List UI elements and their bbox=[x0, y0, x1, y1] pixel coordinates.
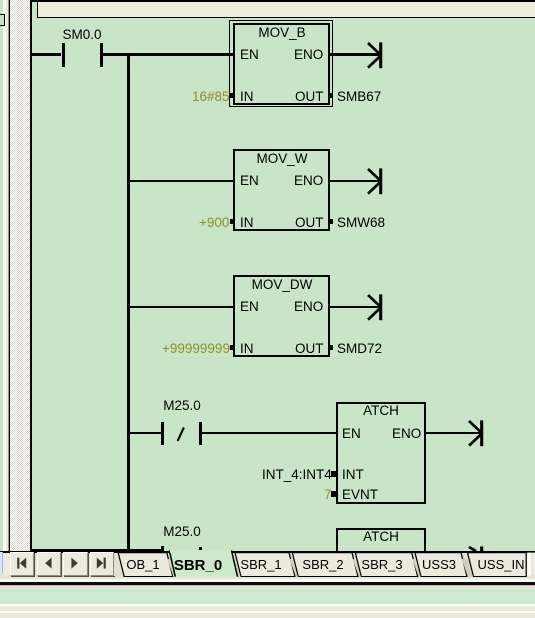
pin ENO (MOV_B) bbox=[294, 48, 323, 62]
operand SMD72 at OUT bbox=[337, 342, 382, 356]
contact M25.0 left bar bbox=[161, 422, 164, 446]
pin OUT (MOV_DW) bbox=[295, 342, 324, 356]
title MOV_B bbox=[258, 26, 305, 40]
IN pin tick bbox=[230, 93, 234, 99]
wire from left rail to contact bbox=[32, 53, 62, 55]
rows under tab strip bbox=[0, 577, 535, 579]
tab nav button last bbox=[90, 552, 115, 576]
EVNT pin tick bbox=[331, 491, 336, 496]
box ATCH 2 (clipped) bbox=[336, 528, 426, 551]
tab label SBR_2 bbox=[302, 558, 343, 572]
operand INT_4:INT4 at INT bbox=[262, 468, 332, 482]
pin INT (ATCH) bbox=[342, 468, 364, 482]
wire contact to ATCH EN bbox=[202, 432, 336, 434]
pin IN (MOV_W) bbox=[240, 216, 254, 230]
operand SMW68 at OUT bbox=[337, 216, 385, 230]
IN pin tick bbox=[230, 345, 234, 351]
inter-tab gap wedges bbox=[167, 559, 175, 577]
contact left bar top bbox=[161, 546, 164, 551]
active tab SBR_0 bbox=[169, 550, 237, 576]
INT pin tick bbox=[331, 471, 336, 476]
continuation arrow rung1 bbox=[365, 40, 387, 71]
tab strip background bbox=[0, 553, 535, 578]
contact M25.0 right bar bbox=[199, 422, 202, 446]
title MOV_W bbox=[256, 152, 307, 166]
pin EN (MOV_W) bbox=[240, 174, 259, 188]
wire rail to contact bbox=[130, 432, 162, 434]
top network title bar bbox=[30, 0, 535, 2]
tab label SBR_0 (active) bbox=[174, 558, 222, 573]
wire ENO to arrow bbox=[330, 53, 380, 55]
box ATCH bbox=[336, 402, 426, 504]
wire contact to MOV_B EN bbox=[103, 53, 233, 55]
branch rail (vertical) bbox=[127, 53, 130, 551]
wire rail to MOV_DW EN bbox=[130, 306, 233, 308]
title MOV_DW bbox=[251, 278, 312, 292]
wire rail to MOV_W EN bbox=[130, 180, 233, 182]
OUT pin tick bbox=[330, 345, 334, 351]
tab label SBR_1 bbox=[241, 558, 282, 572]
box MOV_B bbox=[233, 23, 330, 105]
pin IN (MOV_B) bbox=[240, 90, 254, 104]
pin EN (ATCH) bbox=[342, 427, 361, 441]
box MOV_DW bbox=[233, 275, 330, 357]
title ATCH bbox=[363, 404, 399, 418]
tabs svg bbox=[0, 549, 535, 578]
label M25.0 bbox=[163, 399, 201, 413]
OUT pin tick bbox=[330, 93, 334, 99]
hatched column right border bbox=[30, 0, 32, 553]
rung 5 wire from left rail to contact (clipped by tab strip) bbox=[32, 549, 162, 551]
tab USS3 bbox=[415, 553, 467, 577]
hatched drag column bbox=[10, 0, 30, 551]
box MOV_W bbox=[233, 149, 330, 231]
tab nav button prev bbox=[37, 552, 62, 576]
wire ENO to arrow bbox=[330, 180, 380, 182]
title ATCH (rung 5, clipped) bbox=[363, 530, 399, 544]
strip top border bbox=[0, 551, 535, 553]
continuation arrow rung3 bbox=[365, 292, 387, 323]
IN pin tick bbox=[230, 219, 234, 225]
tab nav button next bbox=[63, 552, 88, 576]
tab label USS3 bbox=[422, 558, 456, 572]
label M25.0 bbox=[163, 525, 201, 539]
pin IN (MOV_DW) bbox=[240, 342, 254, 356]
contact right bar top bbox=[199, 547, 202, 551]
tab nav button first bbox=[10, 552, 35, 576]
tab label USS_IN bbox=[477, 558, 524, 572]
left pane green sliver bbox=[0, 0, 3, 618]
continuation arrow rung5 (clipped) bbox=[466, 544, 488, 551]
splitter bar white/beige bbox=[3, 0, 6, 618]
wire ENO to arrow bbox=[330, 306, 380, 308]
NC slash bbox=[175, 425, 187, 443]
tab label SBR_3 bbox=[362, 558, 403, 572]
contact SM0.0 right bar bbox=[100, 43, 103, 67]
value +99999999 at IN bbox=[162, 342, 230, 356]
continuation arrow rung2 bbox=[365, 166, 387, 197]
pin EN (MOV_DW) bbox=[240, 300, 259, 314]
pin OUT (MOV_W) bbox=[295, 216, 324, 230]
tab SBR_3 bbox=[355, 553, 417, 577]
gap behind tabs left bbox=[114, 553, 117, 576]
scrollbar fragment (left edge, light blue) bbox=[0, 552, 3, 573]
selection frame around MOV_B bbox=[229, 20, 333, 107]
tab label OB_1 bbox=[127, 558, 160, 572]
active tab top join (green) bbox=[170, 550, 230, 553]
value 7 at EVNT bbox=[324, 488, 332, 502]
pin ENO (ATCH) bbox=[392, 427, 421, 441]
value +900 at IN bbox=[199, 216, 229, 230]
pin EVNT (ATCH) bbox=[342, 488, 378, 502]
operand SMB67 at OUT bbox=[337, 90, 381, 104]
hatched drag column left border bbox=[9, 0, 11, 552]
OUT pin tick bbox=[330, 219, 334, 225]
contact SM0.0 left bar bbox=[62, 43, 65, 67]
pin ENO (MOV_DW) bbox=[294, 300, 323, 314]
pin ENO (MOV_W) bbox=[294, 174, 323, 188]
pin EN (MOV_B) bbox=[240, 48, 259, 62]
value 16#85 at IN bbox=[192, 90, 230, 104]
label SM0.0 bbox=[63, 28, 102, 42]
tab SBR_1 bbox=[235, 553, 295, 577]
tab OB_1 bbox=[118, 553, 173, 577]
pin OUT (MOV_B) bbox=[295, 90, 324, 104]
tab SBR_2 bbox=[292, 553, 358, 577]
tree expand-box fragment (cut at left edge) bbox=[0, 14, 5, 26]
tab USS_IN (right edge vertical, clipped) bbox=[468, 553, 527, 577]
partial next element right bbox=[527, 553, 529, 576]
wire ENO to arrow bbox=[426, 432, 480, 434]
continuation arrow rung4 bbox=[466, 418, 488, 449]
